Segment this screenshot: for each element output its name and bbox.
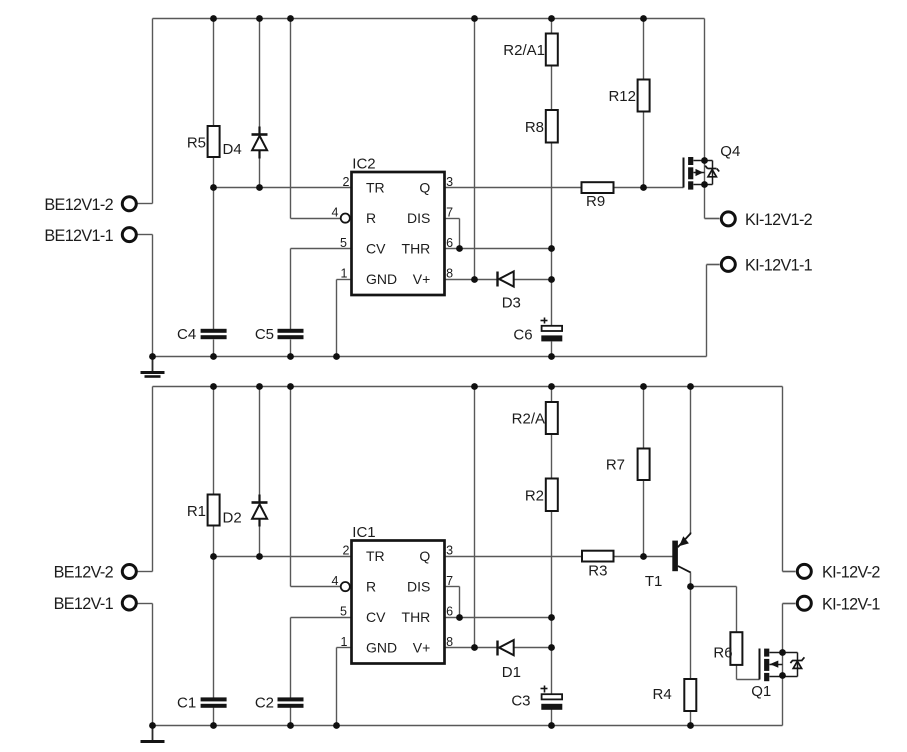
junction TR2 R1	[210, 553, 217, 560]
junction rail2 D2	[256, 383, 263, 390]
wire R2/A top stub	[551, 387, 553, 403]
IC1 pin 4 inversion bubble	[341, 582, 350, 591]
capacitor C3	[511, 686, 562, 710]
junction Q1 source	[779, 672, 786, 679]
resistor R5	[187, 126, 220, 157]
junction rail pin4	[287, 15, 294, 22]
svg-text:D2: D2	[223, 510, 242, 527]
IC2 pin 4 inversion bubble	[341, 214, 350, 223]
junction ground rail2 C1	[210, 722, 217, 729]
svg-text:C1: C1	[177, 695, 196, 712]
timer IC U-block IC2	[332, 156, 454, 295]
wire C6 to ground rail	[551, 342, 553, 357]
wire D2 column top	[259, 387, 261, 496]
junction rail2 R2/A	[548, 383, 555, 390]
svg-text:R7: R7	[606, 456, 625, 473]
node BE12V1-2	[44, 196, 152, 214]
junction rail R5	[210, 15, 217, 22]
svg-text:R2/A: R2/A	[512, 410, 545, 427]
wire C5 to ground rail	[290, 340, 292, 357]
resistor R9	[582, 182, 614, 210]
wire D4 column top	[259, 19, 261, 127]
junction ground rail C4	[210, 353, 217, 360]
junction T1 collector	[687, 583, 694, 590]
diode D4	[223, 127, 268, 159]
svg-text:5: 5	[340, 604, 347, 618]
svg-text:D4: D4	[223, 141, 242, 158]
svg-text:1: 1	[341, 635, 348, 649]
junction ground rail2 R4	[687, 722, 694, 729]
wire GND pin down 2	[336, 648, 338, 726]
wire KI-12V1-1 riser	[706, 265, 708, 357]
svg-text:T1: T1	[645, 573, 663, 590]
svg-text:3: 3	[446, 175, 453, 189]
svg-text:CV: CV	[366, 241, 386, 257]
junction gate R12	[640, 184, 647, 191]
junction TR R5	[210, 184, 217, 191]
junction rail R2/A1	[548, 15, 555, 22]
wire GND pin jog 2	[337, 647, 352, 649]
svg-text:C4: C4	[177, 326, 196, 343]
wire +12V top rail 2	[153, 386, 783, 388]
svg-text:R2: R2	[525, 487, 544, 504]
wire C3 to ground rail	[551, 710, 553, 726]
junction Q1 drain	[779, 649, 786, 656]
wire R1 to C1	[213, 526, 215, 698]
svg-text:D3: D3	[502, 295, 521, 312]
svg-text:R6: R6	[713, 645, 732, 662]
wire R6 bottom	[736, 665, 738, 680]
junction rail2 pin4	[287, 383, 294, 390]
svg-text:C5: C5	[255, 326, 274, 343]
wire +12V1 top rail	[153, 18, 705, 20]
resistor R2	[525, 479, 558, 512]
svg-text:KI-12V-1: KI-12V-1	[822, 595, 880, 613]
wire R6 to Q1 gate	[737, 679, 760, 681]
IC2 body outline	[352, 172, 445, 295]
timer IC U-block IC1	[332, 524, 454, 663]
svg-text:Q4: Q4	[720, 143, 740, 160]
wire KI-12V-1 stub2	[783, 603, 796, 605]
junction rail2 V+	[471, 383, 478, 390]
wire left supply riser	[152, 19, 154, 204]
wire DIS stub	[445, 218, 460, 220]
junction ground symbol	[149, 353, 156, 360]
wire THR row 2	[445, 617, 552, 619]
junction TR2 D2	[256, 553, 263, 560]
wire CV jog horizontal	[291, 248, 352, 250]
transistor T1	[645, 533, 691, 591]
svg-text:GND: GND	[366, 640, 397, 656]
wire pin4 column 2	[290, 387, 292, 587]
junction ground rail2 GND pin	[333, 722, 340, 729]
resistor R8	[525, 110, 558, 143]
svg-text:IC1: IC1	[352, 524, 375, 541]
svg-text:V+: V+	[413, 640, 431, 656]
wire R3 to T1 base	[614, 556, 674, 558]
wire KI-12V1-1 stub	[707, 264, 720, 266]
wire R6 top	[736, 587, 738, 633]
svg-text:4: 4	[332, 574, 339, 588]
svg-text:Q: Q	[419, 180, 430, 196]
svg-text:BE12V-2: BE12V-2	[54, 564, 114, 582]
junction V+2 column	[471, 644, 478, 651]
svg-text:2: 2	[343, 175, 350, 189]
junction rail2 T1	[687, 383, 694, 390]
resistor R1	[187, 495, 220, 526]
resistor R12	[608, 80, 649, 112]
node KI-12V1-2	[705, 211, 813, 229]
svg-text:5: 5	[340, 236, 347, 250]
node KI-12V-2	[783, 564, 881, 582]
wire R7 top stub	[643, 387, 645, 449]
resistor R2/A1	[503, 34, 558, 66]
junction Q4 source	[701, 181, 708, 188]
svg-text:KI-12V-2: KI-12V-2	[822, 564, 880, 582]
junction rail R12	[640, 15, 647, 22]
svg-text:TR: TR	[366, 180, 385, 196]
junction ground rail C6	[548, 353, 555, 360]
svg-text:7: 7	[446, 574, 453, 588]
svg-text:CV: CV	[366, 609, 386, 625]
junction D3 C6	[548, 276, 555, 283]
wire D3 row	[475, 279, 552, 281]
wire GND2 bottom rail	[153, 725, 783, 727]
svg-text:BE12V1-2: BE12V1-2	[44, 196, 113, 214]
wire DIS to THR jog	[459, 219, 461, 249]
svg-text:1: 1	[341, 266, 348, 280]
svg-text:C6: C6	[513, 326, 532, 343]
wire collector to R4	[690, 587, 692, 680]
wire R12 to gate node	[643, 112, 645, 188]
wire collector to R6 horizontal	[691, 586, 737, 588]
wire R8 to C6	[551, 143, 553, 326]
wire R5 column top	[213, 19, 215, 127]
wire V+ column 2	[474, 387, 476, 648]
resistor R6	[713, 632, 742, 665]
wire TR row	[214, 187, 352, 189]
wire V+ row 2	[445, 647, 475, 649]
wire KI-12V-2 riser	[782, 387, 784, 572]
svg-text:R12: R12	[608, 88, 636, 105]
svg-text:BE12V1-1: BE12V1-1	[44, 227, 113, 245]
resistor R2/A	[512, 402, 558, 434]
wire CV jog horizontal 2	[291, 617, 352, 619]
wire Q4 source down	[704, 185, 706, 219]
wire C1 to ground rail	[213, 708, 215, 726]
IC1 body outline	[352, 541, 445, 664]
transistor Q4	[684, 143, 741, 190]
wire BE12V-1 to ground rail	[152, 604, 154, 726]
svg-text:4: 4	[332, 205, 339, 219]
svg-text:R3: R3	[588, 563, 607, 580]
resistor R3	[582, 551, 614, 580]
junction TR D4	[256, 184, 263, 191]
resistor R7	[606, 449, 650, 481]
diode D1	[498, 640, 521, 681]
wire Q output row	[445, 187, 582, 189]
svg-text:D1: D1	[502, 664, 521, 681]
junction rail2 R1	[210, 383, 217, 390]
wire V+ row	[445, 279, 475, 281]
junction THR2 R2	[548, 614, 555, 621]
junction THR R8	[548, 245, 555, 252]
junction THR jog	[456, 245, 463, 252]
capacitor C6	[513, 318, 562, 344]
wire R9 to Q4 gate	[614, 187, 684, 189]
junction base R7	[640, 553, 647, 560]
diode D3	[498, 271, 521, 311]
wire pin4 horizontal	[291, 218, 341, 220]
wire V+ column	[474, 19, 476, 280]
svg-text:THR: THR	[402, 241, 431, 257]
svg-text:3: 3	[446, 543, 453, 557]
wire KI-12V-2 stub2	[783, 571, 796, 573]
svg-text:R: R	[366, 210, 376, 226]
svg-text:8: 8	[446, 635, 453, 649]
junction rail V+	[471, 15, 478, 22]
wire source to KI-12V1-2	[705, 218, 720, 220]
svg-text:R8: R8	[525, 119, 544, 136]
svg-text:R1: R1	[187, 503, 206, 520]
capacitor C4	[177, 326, 227, 343]
junction ground rail GND pin	[333, 353, 340, 360]
junction Q4 drain	[701, 157, 708, 164]
svg-text:C3: C3	[511, 693, 530, 710]
wire R2/A1 to R8	[551, 66, 553, 111]
junction ground rail C5	[287, 353, 294, 360]
junction rail2 R7	[640, 383, 647, 390]
wire C2 to ground rail	[290, 708, 292, 726]
wire pin4 column	[290, 19, 292, 219]
wire C4 to ground rail	[213, 340, 215, 357]
svg-text:V+: V+	[413, 271, 431, 287]
wire R2/A1 top stub	[551, 19, 553, 34]
capacitor C1	[177, 695, 227, 712]
svg-text:TR: TR	[366, 548, 385, 564]
wire TR row 2	[214, 556, 352, 558]
ground 2	[141, 726, 165, 742]
svg-text:C2: C2	[255, 695, 274, 712]
junction V+ column	[471, 276, 478, 283]
svg-text:DIS: DIS	[407, 210, 430, 226]
svg-text:2: 2	[343, 543, 350, 557]
svg-text:6: 6	[446, 604, 453, 618]
wire Q4 drain-source column	[704, 161, 706, 185]
junction ground symbol 2	[149, 722, 156, 729]
svg-text:KI-12V1-1: KI-12V1-1	[745, 257, 813, 275]
capacitor C2	[255, 695, 304, 712]
wire D2 to TR node	[259, 527, 261, 557]
wire D1 row	[475, 647, 552, 649]
wire BE12V1-1 to ground rail	[152, 235, 154, 357]
wire R1 column top	[213, 387, 215, 495]
wire KI-12V-1 to Q1 drain	[782, 604, 784, 653]
wire Q1 source to ground rail	[782, 676, 784, 726]
node KI-12V-1	[783, 595, 881, 613]
node BE12V-1	[54, 595, 153, 613]
wire GND pin jog	[337, 279, 352, 281]
wire CV to C5	[290, 249, 292, 330]
junction D1 C3	[548, 644, 555, 651]
wire DIS to THR jog 2	[459, 587, 461, 618]
wire D4 to TR node	[259, 159, 261, 188]
wire T1 emitter riser	[690, 387, 692, 533]
svg-text:DIS: DIS	[407, 579, 430, 595]
wire pin4 horizontal 2	[291, 586, 341, 588]
wire R2 to C3	[551, 512, 553, 695]
junction ground rail2 C3	[548, 722, 555, 729]
svg-text:THR: THR	[402, 609, 431, 625]
node KI-12V1-1	[707, 257, 813, 275]
svg-text:GND: GND	[366, 271, 397, 287]
svg-text:R9: R9	[586, 193, 605, 210]
wire GND pin down	[336, 280, 338, 357]
wire left supply riser 2	[152, 387, 154, 572]
svg-text:IC2: IC2	[352, 156, 375, 173]
wire R5 to C4	[213, 158, 215, 330]
wire Q1 drain-source column	[782, 653, 784, 676]
wire R4 to ground rail	[690, 712, 692, 726]
transistor Q1	[751, 649, 804, 701]
wire DIS stub 2	[445, 586, 460, 588]
svg-text:R: R	[366, 579, 376, 595]
wire rail to Q4 drain	[704, 19, 706, 161]
junction ground rail2 C2	[287, 722, 294, 729]
svg-text:R4: R4	[653, 686, 672, 703]
wire CV to C2	[290, 618, 292, 698]
svg-text:KI-12V1-2: KI-12V1-2	[745, 211, 813, 229]
wire THR row	[445, 248, 552, 250]
svg-text:R5: R5	[187, 134, 206, 151]
svg-text:7: 7	[446, 205, 453, 219]
wire Q output row 2	[445, 556, 583, 558]
diode D2	[223, 495, 268, 527]
node BE12V1-1	[44, 227, 152, 245]
wire R2/A to R2	[551, 435, 553, 479]
svg-text:R2/A1: R2/A1	[503, 42, 545, 59]
junction rail D4	[256, 15, 263, 22]
resistor R4	[653, 679, 697, 711]
capacitor C5	[255, 326, 304, 343]
svg-text:Q1: Q1	[751, 683, 771, 700]
svg-text:8: 8	[446, 266, 453, 280]
node BE12V-2	[54, 564, 153, 582]
wire R12 top stub	[643, 19, 645, 80]
ground	[141, 357, 165, 377]
junction THR2 jog	[456, 614, 463, 621]
wire R7 to base node	[643, 481, 645, 557]
svg-text:Q: Q	[419, 548, 430, 564]
wire GND1 bottom rail	[153, 356, 707, 358]
svg-text:6: 6	[446, 236, 453, 250]
svg-text:BE12V-1: BE12V-1	[54, 595, 114, 613]
